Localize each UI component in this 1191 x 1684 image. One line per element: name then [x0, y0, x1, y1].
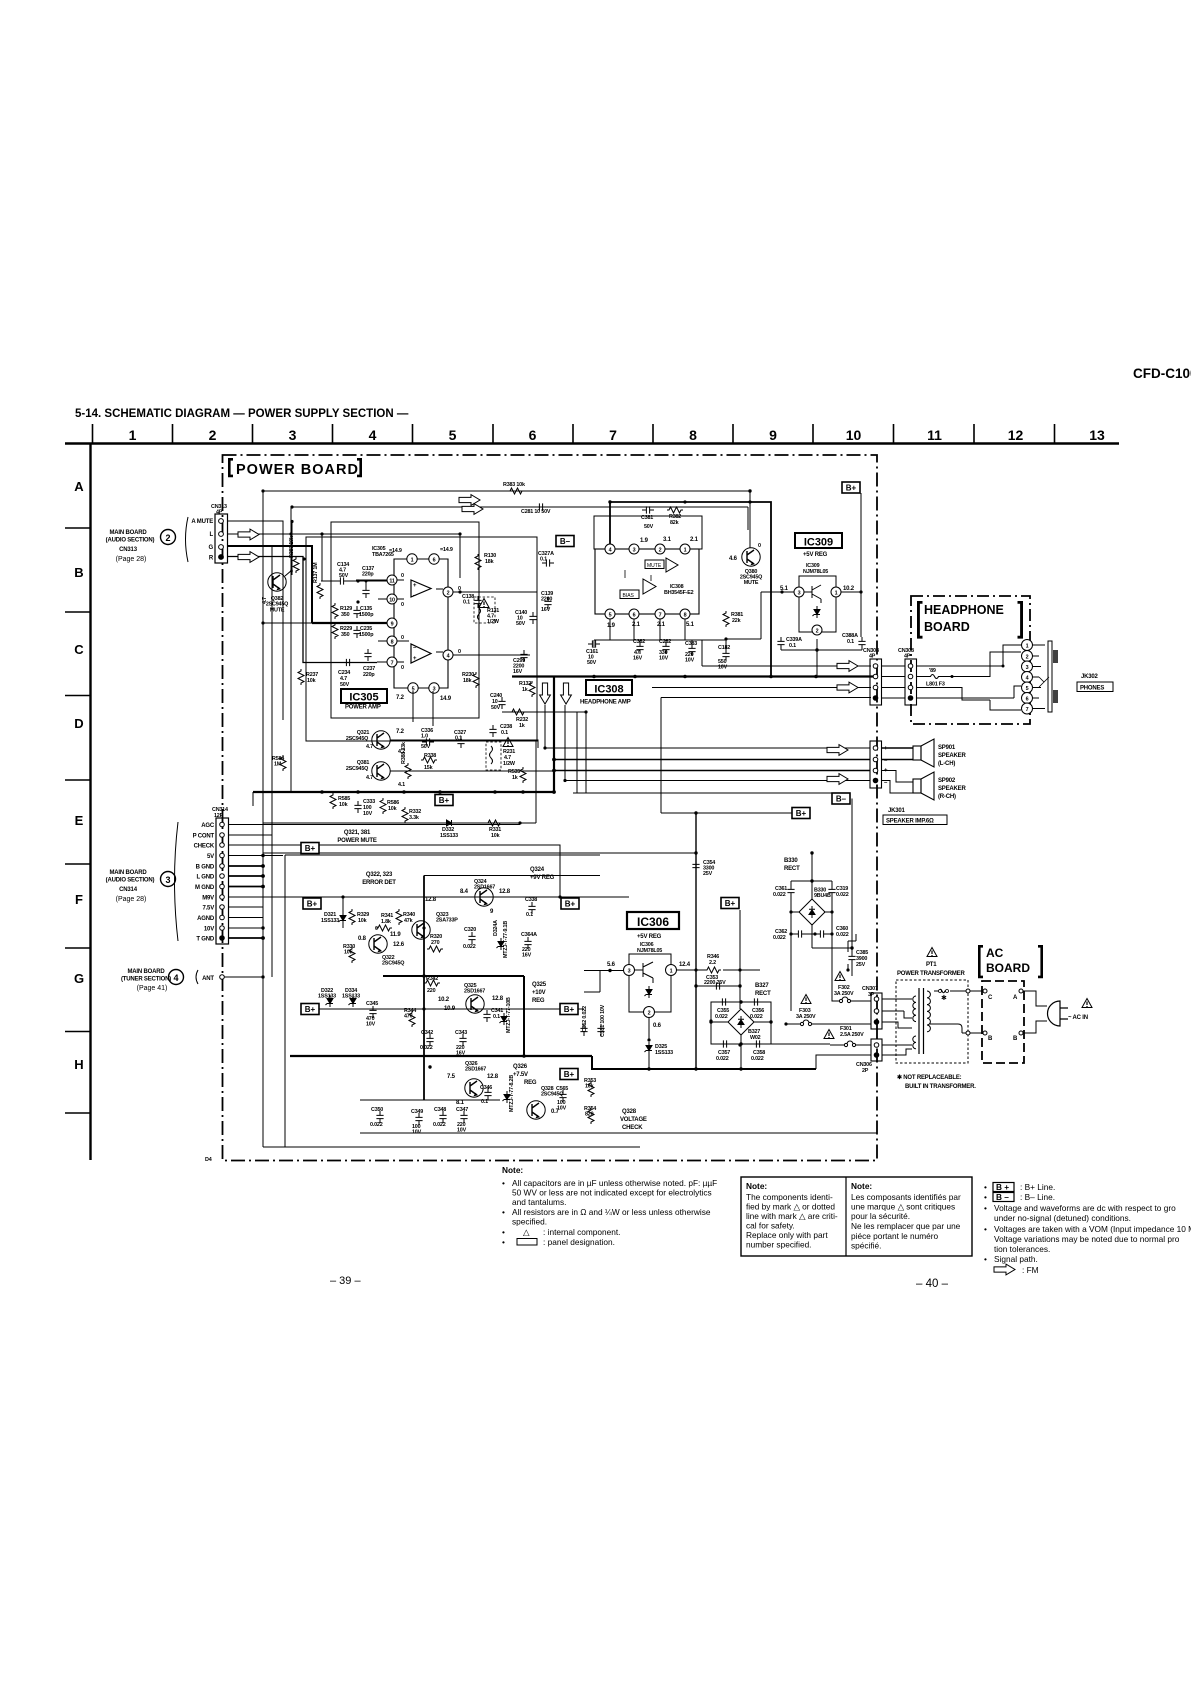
- svg-text:R387 10k: R387 10k: [289, 536, 295, 558]
- resistor R229: [332, 623, 338, 639]
- svg-text:14.9: 14.9: [440, 696, 452, 702]
- capacitor C346: [484, 1088, 491, 1100]
- svg-text:10V: 10V: [557, 1106, 567, 1112]
- capacitor C336: [422, 738, 434, 745]
- fuse F302: [835, 972, 845, 981]
- svg-text:MTZJ-T-77-10B: MTZJ-T-77-10B: [506, 997, 512, 1033]
- wire B330 loop: [791, 853, 852, 953]
- wire CN313 R: [228, 557, 378, 663]
- svg-text:C343: C343: [455, 1030, 467, 1036]
- svg-text:fied by mark △ or dotted: fied by mark △ or dotted: [746, 1202, 835, 1212]
- wire Q321 collector run: [390, 705, 565, 781]
- resistor R353: [588, 1081, 594, 1097]
- junction dots: [261, 489, 323, 978]
- capacitor C338: [528, 902, 535, 914]
- capacitor C565: [559, 1090, 566, 1102]
- svg-text:POWER BOARD: POWER BOARD: [236, 462, 359, 478]
- wire heavy feed: [610, 502, 771, 677]
- transistor Q325: [466, 995, 484, 1013]
- svg-text:and tantalums.: and tantalums.: [512, 1197, 566, 1207]
- svg-text:: panel designation.: : panel designation.: [543, 1237, 615, 1247]
- svg-text:D324A: D324A: [493, 920, 499, 936]
- wire amp outputs: [356, 580, 443, 662]
- svg-text:7: 7: [659, 613, 662, 619]
- svg-text:10.9: 10.9: [444, 1006, 456, 1012]
- svg-text:✱: ✱: [941, 994, 947, 1002]
- svg-text:10V: 10V: [366, 1022, 376, 1028]
- svg-text:8.1: 8.1: [456, 1100, 465, 1106]
- svg-text:+5V REG: +5V REG: [637, 934, 662, 940]
- svg-text:0.022: 0.022: [773, 892, 786, 898]
- svg-text:270: 270: [431, 940, 440, 946]
- capacitor C364A: [524, 937, 531, 949]
- svg-text:0: 0: [401, 573, 404, 579]
- svg-text:0.022: 0.022: [420, 1045, 433, 1051]
- svg-text:50 WV or less are not indicate: 50 WV or less are not indicated except f…: [512, 1188, 712, 1198]
- signal arrow CN313 L: [238, 529, 259, 540]
- svg-text:C182: C182: [718, 645, 730, 651]
- svg-text:L801 F3: L801 F3: [926, 682, 945, 688]
- svg-text:8.4: 8.4: [460, 889, 469, 895]
- resistor R320: [427, 946, 443, 952]
- svg-text:2: 2: [165, 533, 170, 543]
- wire hp internal: [917, 652, 1022, 700]
- svg-text:1: 1: [1026, 644, 1029, 650]
- amp triangle upper: [666, 558, 678, 572]
- svg-text:0.022: 0.022: [716, 1056, 729, 1062]
- capacitor C343: [459, 1034, 466, 1046]
- svg-text:25V: 25V: [703, 871, 713, 877]
- svg-text:6: 6: [633, 613, 636, 619]
- wire R232 row: [502, 712, 586, 793]
- svg-text:•: •: [502, 1178, 505, 1188]
- svg-text:10V: 10V: [457, 1128, 467, 1134]
- resistor R331: [486, 820, 502, 826]
- svg-text:•: •: [502, 1237, 505, 1247]
- svg-text:50V: 50V: [340, 682, 350, 688]
- svg-text:220: 220: [427, 988, 436, 994]
- resistor R586: [380, 798, 386, 814]
- svg-text:16V: 16V: [633, 656, 643, 662]
- wire M9V: [229, 896, 264, 898]
- wire out y687: [652, 687, 871, 689]
- svg-text:RECT: RECT: [755, 991, 771, 997]
- wire pin5 pin3 drop: [413, 691, 433, 718]
- svg-text:2: 2: [447, 591, 450, 597]
- svg-text:under no-signal (detuned) cond: under no-signal (detuned) conditions.: [994, 1213, 1131, 1223]
- svg-text:18k: 18k: [463, 678, 472, 684]
- pin 3: [624, 965, 635, 976]
- svg-text:: B– Line.: : B– Line.: [1020, 1192, 1055, 1202]
- svg-text:10V: 10V: [363, 811, 373, 817]
- svg-text:•: •: [984, 1182, 987, 1192]
- svg-text:4: 4: [173, 973, 178, 983]
- wire pin2 out: [453, 591, 537, 593]
- svg-text:1k: 1k: [519, 723, 525, 729]
- svg-text:pour la sécurité.: pour la sécurité.: [851, 1211, 910, 1221]
- svg-text:ANT: ANT: [202, 976, 214, 982]
- svg-text:=14.9: =14.9: [440, 547, 453, 553]
- svg-text:Q328: Q328: [622, 1109, 637, 1115]
- net B- top: [556, 536, 574, 547]
- capacitor C354: [692, 860, 699, 872]
- svg-text:Les composants identifiés par: Les composants identifiés par: [851, 1192, 961, 1202]
- capacitor C237: [364, 649, 371, 661]
- svg-text:=14.9: =14.9: [389, 548, 402, 554]
- signal arrow down pair: [540, 683, 551, 704]
- svg-text:All capacitors are in µF unles: All capacitors are in µF unless otherwis…: [512, 1178, 717, 1188]
- capacitor C355: [718, 998, 730, 1005]
- svg-text:2SD1667: 2SD1667: [474, 885, 495, 891]
- connector CN306: [871, 1039, 882, 1061]
- wire pin11 input: [321, 534, 387, 586]
- resistor R132: [529, 681, 535, 697]
- svg-text:4: 4: [369, 427, 377, 443]
- svg-text:3.1: 3.1: [663, 537, 672, 543]
- net B+: [435, 795, 453, 806]
- pin 5: [605, 609, 615, 619]
- svg-text:2: 2: [1026, 655, 1029, 661]
- secondary winding upper: [913, 996, 916, 1022]
- svg-text:0.1: 0.1: [526, 912, 533, 918]
- connector CN313: [186, 504, 228, 563]
- svg-text:C350: C350: [371, 1107, 383, 1113]
- svg-text:R338: R338: [424, 753, 436, 759]
- svg-text:AC: AC: [986, 946, 1004, 960]
- net B- right: [832, 793, 850, 804]
- svg-text:A: A: [74, 479, 84, 494]
- svg-text:2: 2: [659, 548, 662, 554]
- pin 11: [387, 575, 397, 585]
- pin 1: [680, 544, 690, 554]
- svg-text:5: 5: [449, 427, 457, 443]
- svg-text:C282: C282: [659, 639, 671, 645]
- capacitor C140: [529, 612, 536, 624]
- wire right bus x861: [860, 493, 862, 637]
- svg-text:3A 250V: 3A 250V: [796, 1014, 816, 1020]
- transistor Q323: [412, 921, 430, 939]
- svg-text:HEADPHONE: HEADPHONE: [924, 603, 1004, 617]
- svg-text:4.7: 4.7: [366, 744, 373, 750]
- svg-text:: internal component.: : internal component.: [543, 1227, 620, 1237]
- svg-text:Q326: Q326: [513, 1064, 528, 1070]
- diode D321: [342, 897, 344, 928]
- wire bus y806: [263, 741, 536, 823]
- wire M GND: [229, 886, 264, 888]
- capacitor C134: [336, 577, 348, 584]
- capacitor C320: [468, 932, 475, 944]
- wire P CONT: [229, 834, 273, 836]
- svg-text:IC305: IC305: [349, 692, 378, 704]
- resistor R129: [332, 603, 338, 619]
- svg-text:H: H: [74, 1057, 83, 1072]
- jack JK302 pin 2: [1022, 651, 1033, 662]
- resistor R388: [405, 763, 411, 779]
- capacitor C327A: [542, 559, 554, 566]
- svg-text:0.022: 0.022: [750, 1014, 763, 1020]
- capacitor C382: [636, 642, 643, 654]
- zener inside: [813, 606, 821, 618]
- pin 7: [655, 609, 665, 619]
- capacitor C135: [353, 606, 360, 618]
- wire outer loop rect: [331, 522, 479, 718]
- svg-text:PHONES: PHONES: [1080, 686, 1104, 692]
- capacitor C381: [642, 506, 654, 513]
- label main board tuner section 4: [121, 969, 214, 992]
- resistor R232: [510, 709, 526, 715]
- svg-text:: B+ Line.: : B+ Line.: [1020, 1182, 1055, 1192]
- wire IC305 body outline: [394, 559, 448, 688]
- svg-text:Q322, 323: Q322, 323: [366, 872, 393, 878]
- svg-text:1k: 1k: [512, 775, 518, 781]
- pin 8: [387, 636, 397, 646]
- svg-text:1/2W: 1/2W: [487, 619, 500, 625]
- svg-text:5: 5: [1026, 686, 1029, 692]
- svg-text:AGND: AGND: [197, 916, 215, 922]
- svg-text:C381: C381: [641, 515, 653, 521]
- transistor Q326: [465, 1079, 483, 1097]
- svg-text:50V: 50V: [491, 705, 501, 711]
- resistor R237: [298, 669, 304, 685]
- svg-text:M GND: M GND: [195, 885, 215, 891]
- svg-text:BH3545F-E2: BH3545F-E2: [664, 590, 694, 596]
- resistor R263 feedback: [625, 570, 651, 581]
- capacitor C182: [722, 649, 729, 661]
- svg-text:BUILT IN TRANSFORMER.: BUILT IN TRANSFORMER.: [905, 1084, 976, 1090]
- svg-text:5: 5: [609, 613, 612, 619]
- svg-text:(AUDIO SECTION): (AUDIO SECTION): [106, 878, 155, 884]
- svg-text:R383 10k: R383 10k: [503, 482, 525, 488]
- svg-text:50V: 50V: [587, 660, 597, 666]
- svg-text:2P: 2P: [862, 1068, 869, 1074]
- svg-text:– 40 –: – 40 –: [916, 1278, 949, 1290]
- svg-text:specified.: specified.: [512, 1217, 547, 1227]
- svg-text:SP901: SP901: [938, 745, 956, 751]
- svg-text:0.1: 0.1: [789, 643, 796, 649]
- transistor Q380: [742, 548, 760, 566]
- svg-text:9BU4B: 9BU4B: [814, 893, 831, 899]
- wire 5V: [229, 855, 284, 857]
- svg-text:SP902: SP902: [938, 778, 956, 784]
- svg-text:16V: 16V: [541, 607, 551, 613]
- svg-text:MTZJ-T-77-8.2B: MTZJ-T-77-8.2B: [509, 1075, 515, 1112]
- svg-text:B330: B330: [784, 858, 798, 864]
- svg-text:PT1: PT1: [926, 962, 937, 968]
- svg-text:MUTE: MUTE: [270, 608, 285, 614]
- svg-text:25V: 25V: [856, 962, 866, 968]
- svg-text:10k: 10k: [339, 802, 348, 808]
- svg-text:C347: C347: [456, 1107, 468, 1113]
- pin 3: [794, 587, 804, 597]
- svg-text:D4: D4: [205, 1157, 212, 1163]
- svg-text:10: 10: [846, 427, 862, 443]
- note box: [741, 1177, 972, 1256]
- svg-text:E: E: [75, 813, 84, 828]
- svg-text:MAIN BOARD: MAIN BOARD: [110, 530, 148, 536]
- capacitor C234: [342, 659, 354, 666]
- svg-text:POWER AMP: POWER AMP: [345, 705, 381, 711]
- svg-text:1M: 1M: [274, 762, 282, 768]
- svg-text:G: G: [209, 545, 214, 551]
- svg-text:22k: 22k: [732, 618, 741, 624]
- svg-text:cal for safety.: cal for safety.: [746, 1221, 795, 1231]
- svg-text:2: 2: [648, 1011, 651, 1017]
- svg-text:Note:: Note:: [746, 1181, 767, 1191]
- svg-text:2.1: 2.1: [632, 622, 641, 628]
- fuse F301: [824, 1030, 834, 1039]
- resistor R137: [317, 583, 323, 599]
- resistor R341: [376, 925, 392, 931]
- svg-text:0.6: 0.6: [653, 1023, 662, 1029]
- svg-text:7.2: 7.2: [396, 729, 405, 735]
- label AC BOARD: [978, 945, 1043, 978]
- capacitor C161: [588, 640, 600, 647]
- svg-text:350: 350: [341, 632, 350, 638]
- svg-text:16V: 16V: [522, 953, 532, 959]
- svg-text:0.022: 0.022: [836, 932, 849, 938]
- svg-text:+9V REG: +9V REG: [530, 875, 555, 881]
- svg-text:4: 4: [609, 548, 612, 554]
- svg-text:C383: C383: [685, 641, 697, 647]
- svg-text:△: △: [523, 1227, 530, 1237]
- svg-text:1/2W: 1/2W: [503, 761, 516, 767]
- svg-text:12.8: 12.8: [425, 897, 437, 903]
- svg-text:6: 6: [529, 427, 537, 443]
- label box IC308: [586, 680, 632, 695]
- label BIAS box: [620, 590, 639, 599]
- svg-text:L: L: [210, 532, 214, 538]
- svg-text:B GND: B GND: [196, 865, 215, 871]
- svg-text:12.4: 12.4: [679, 962, 691, 968]
- svg-text:0: 0: [401, 665, 404, 671]
- svg-text:12.8: 12.8: [487, 1074, 499, 1080]
- resistor R584: [280, 755, 286, 771]
- connector CN314: [175, 807, 229, 944]
- svg-text:2SD1667: 2SD1667: [464, 989, 485, 995]
- svg-text:P CONT: P CONT: [193, 834, 215, 840]
- svg-text:MTZJ-T-77-9.1B: MTZJ-T-77-9.1B: [503, 921, 509, 958]
- svg-text:3: 3: [165, 875, 170, 885]
- resistor R330: [349, 947, 355, 963]
- pin 10: [387, 594, 397, 604]
- svg-text:MAIN BOARD: MAIN BOARD: [128, 969, 166, 975]
- svg-text:2SA733P: 2SA733P: [436, 918, 458, 924]
- svg-text:6: 6: [433, 558, 436, 564]
- pin 6: [629, 609, 639, 619]
- svg-text:MUTE: MUTE: [744, 580, 759, 586]
- svg-text:820: 820: [585, 1112, 594, 1118]
- svg-text:1.0: 1.0: [421, 734, 428, 740]
- capacitor C339A: [781, 639, 862, 677]
- svg-text:B: B: [74, 565, 83, 580]
- thermal fuse: [934, 989, 947, 993]
- wire CN313 G: [228, 546, 313, 623]
- svg-text:spécifié.: spécifié.: [851, 1241, 881, 1251]
- wire T GND: [229, 937, 264, 939]
- wire mid vertical x460: [459, 534, 461, 578]
- svg-text:C349: C349: [411, 1109, 423, 1115]
- svg-text:0: 0: [401, 602, 404, 608]
- svg-text:7: 7: [391, 661, 394, 667]
- svg-text:IC308: IC308: [594, 684, 623, 696]
- svg-text:B327: B327: [755, 983, 769, 989]
- capacitor C385: [848, 952, 855, 964]
- svg-text:number specified.: number specified.: [746, 1240, 812, 1250]
- primary winding: [927, 991, 930, 1032]
- svg-text:0.022: 0.022: [433, 1122, 446, 1128]
- svg-text:8: 8: [391, 640, 394, 646]
- svg-text:50V: 50V: [421, 744, 431, 750]
- resistor R342: [424, 980, 440, 986]
- svg-text:+5V REG: +5V REG: [803, 552, 828, 558]
- svg-text:R388 33k: R388 33k: [401, 742, 407, 764]
- svg-text:C382: C382: [633, 639, 645, 645]
- svg-text:16V: 16V: [513, 669, 523, 675]
- svg-text:•: •: [502, 1207, 505, 1217]
- diode D325: [645, 1042, 653, 1054]
- capacitor C350: [376, 1111, 383, 1123]
- signal arrow CN313 R: [238, 552, 259, 563]
- capacitor C347: [460, 1111, 467, 1123]
- svg-text:MUTE: MUTE: [647, 563, 662, 569]
- wire pins drop: [594, 619, 726, 651]
- capacitor C357: [719, 1040, 731, 1047]
- svg-text:C342: C342: [421, 1030, 433, 1036]
- wire ANT: [224, 976, 263, 978]
- bridge B330: [799, 899, 825, 925]
- svg-text:F: F: [75, 892, 83, 907]
- svg-text:12.8: 12.8: [499, 889, 511, 895]
- svg-text:2: 2: [816, 629, 819, 635]
- resistor R535: [520, 767, 526, 783]
- svg-text:•: •: [984, 1224, 987, 1234]
- svg-text:JK302: JK302: [1081, 674, 1099, 680]
- svg-text:une marque △ sont critiques: une marque △ sont critiques: [851, 1202, 955, 1212]
- svg-text:10V: 10V: [412, 1130, 422, 1136]
- svg-text:2.2: 2.2: [709, 960, 716, 966]
- jack JK302 pin 1: [1022, 640, 1033, 651]
- svg-text:VOLTAGE: VOLTAGE: [620, 1117, 647, 1123]
- transformer core: [919, 988, 924, 1054]
- svg-text:2: 2: [209, 427, 217, 443]
- pin 4: [443, 650, 453, 660]
- svg-text:50V: 50V: [339, 573, 349, 579]
- title brackets: [917, 601, 1023, 639]
- wire out y699: [577, 698, 871, 814]
- capacitor C349: [415, 1113, 422, 1125]
- svg-text:BOARD: BOARD: [986, 961, 1030, 975]
- svg-text:C352 0.022: C352 0.022: [582, 1006, 588, 1032]
- board outline dashed: [911, 596, 1030, 724]
- svg-text:The components identi-: The components identi-: [746, 1192, 833, 1202]
- resistor R344: [409, 1011, 415, 1027]
- svg-text:12.6: 12.6: [393, 942, 405, 948]
- jack JK302 pin 7: [1022, 703, 1033, 714]
- svg-text:4P: 4P: [216, 510, 223, 516]
- svg-text:47k: 47k: [404, 918, 413, 924]
- pin 1: [831, 587, 841, 597]
- svg-text:CHECK: CHECK: [622, 1125, 643, 1131]
- wire 10V: [229, 927, 264, 929]
- node ANT pin: [220, 975, 225, 980]
- svg-text:0.022: 0.022: [370, 1122, 383, 1128]
- op-amp body: [595, 549, 699, 614]
- svg-text:C338: C338: [525, 897, 537, 903]
- svg-text:CN314: CN314: [119, 887, 138, 893]
- wire top right drop x750: [749, 491, 751, 548]
- svg-text:11: 11: [927, 427, 942, 443]
- capacitor C345: [369, 1006, 376, 1018]
